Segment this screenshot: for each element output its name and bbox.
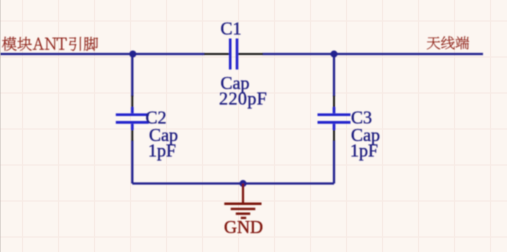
svg-text:GND: GND — [224, 217, 263, 237]
wire: left vertical segment (C2 down to bottom net) — [131, 141, 133, 184]
capacitor C2 pin 2 (lower lead) — [131, 129, 133, 141]
junction: top wire / C2 branch — [129, 51, 136, 58]
wire: bottom ground net segment — [132, 182, 334, 184]
net label 模块ANT引脚 (module ANT pin) — [2, 37, 98, 51]
svg-text:1pF: 1pF — [148, 141, 176, 161]
capacitor C3 pin 1 (upper lead) — [333, 96, 335, 108]
svg-text:1pF: 1pF — [350, 141, 378, 161]
wire: right vertical segment (C3 down to bottom net) — [333, 141, 335, 184]
net label 天线端 (antenna end) — [427, 36, 469, 49]
capacitor C2 plates and stubs — [116, 107, 149, 130]
wire: top net, right segment (C1 pin2 to 天线端) — [263, 53, 484, 55]
edge artifact line — [0, 0, 2, 252]
capacitor C3 pin 2 (lower lead) — [333, 129, 335, 141]
wire: right vertical segment (top net down to C3) — [333, 54, 335, 97]
junction: top wire / C3 branch — [331, 51, 338, 58]
wire: top net, left segment (模块ANT引脚 to C1 pin1) — [0, 53, 205, 55]
svg-text:C1: C1 — [221, 19, 242, 39]
wire: left vertical segment (top net down to C2) — [131, 54, 133, 97]
capacitor C3 plates and stubs — [318, 107, 351, 130]
ground GND power port symbol — [224, 184, 261, 218]
capacitor C1 pin 2 (right lead) — [238, 53, 263, 55]
capacitor C1 pin 1 (left lead) — [204, 53, 229, 55]
capacitor C1 plates — [230, 39, 237, 70]
svg-text:220pF: 220pF — [219, 89, 267, 109]
junction: bottom wire / GND — [240, 180, 247, 187]
capacitor C2 pin 1 (upper lead) — [131, 96, 133, 108]
